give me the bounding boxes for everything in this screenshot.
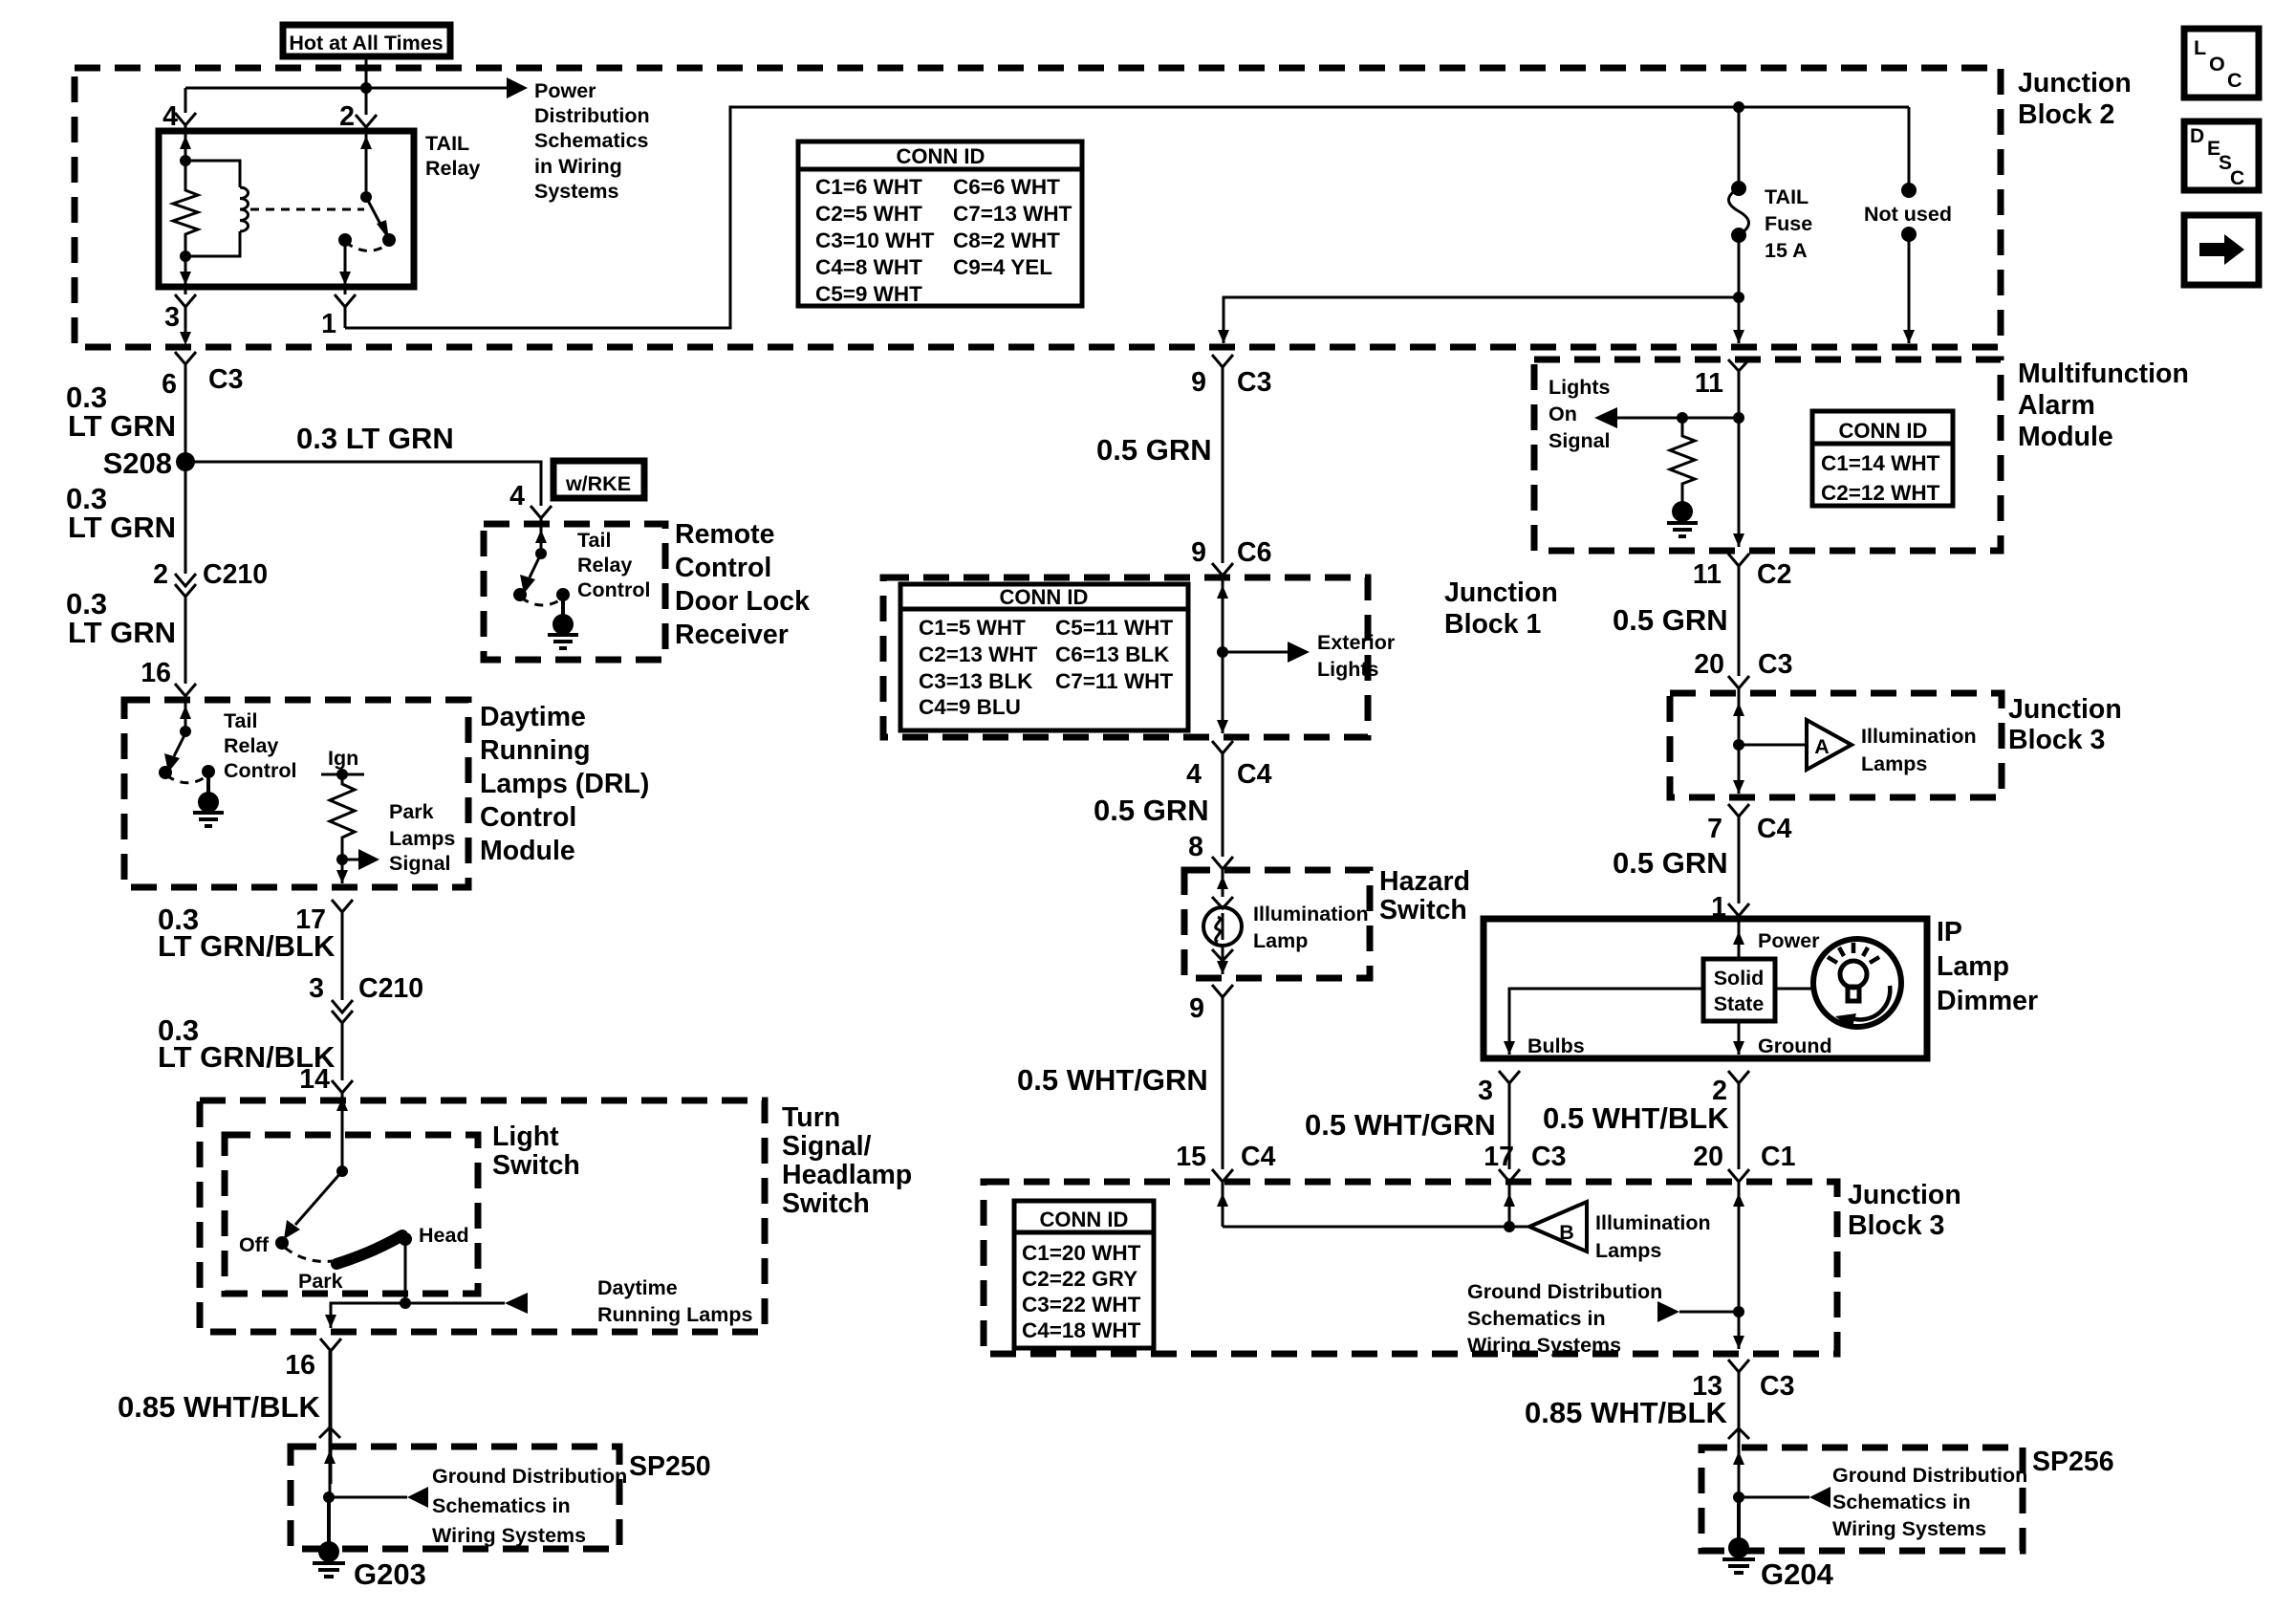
svg-text:Alarm: Alarm: [2018, 390, 2095, 421]
svg-text:C5=11 WHT: C5=11 WHT: [1055, 616, 1173, 640]
svg-text:0.5 GRN: 0.5 GRN: [1613, 846, 1728, 880]
svg-text:Module: Module: [2018, 422, 2113, 452]
wire S208 branch to RKE: [185, 462, 541, 506]
svg-text:0.5 GRN: 0.5 GRN: [1613, 603, 1728, 637]
connector 15 C4 into JB3: [1212, 1169, 1233, 1182]
inline connector 20 C3: [1728, 676, 1749, 688]
Junction Block 3 (lower) dashed box: [984, 1182, 1837, 1354]
wire not used lower: [1908, 234, 1911, 343]
svg-text:Daytime: Daytime: [597, 1276, 678, 1299]
node fuse output junction: [1733, 292, 1744, 303]
svg-text:C6=13 BLK: C6=13 BLK: [1055, 642, 1170, 666]
svg-text:Multifunction: Multifunction: [2018, 359, 2189, 389]
wire relay pin 4 drop: [184, 88, 187, 113]
svg-text:Signal: Signal: [389, 852, 451, 875]
svg-text:Relay: Relay: [577, 554, 632, 577]
wire pin1 riser to fuse feed: [345, 107, 1909, 328]
svg-text:CONN ID: CONN ID: [1839, 419, 1928, 443]
svg-text:15: 15: [1176, 1142, 1206, 1172]
svg-text:L: L: [2194, 36, 2206, 59]
svg-text:CONN ID: CONN ID: [1040, 1208, 1129, 1231]
svg-text:4: 4: [509, 481, 525, 512]
svg-text:C4: C4: [1237, 759, 1272, 790]
svg-text:Switch: Switch: [1379, 895, 1467, 925]
svg-text:2: 2: [153, 559, 168, 590]
svg-text:Ground Distribution: Ground Distribution: [432, 1465, 627, 1488]
pin 4 connector: [175, 113, 196, 125]
svg-text:3: 3: [164, 302, 180, 333]
svg-text:Lights: Lights: [1317, 658, 1379, 681]
connector 7 C4 below JB3 upper: [1728, 804, 1749, 816]
svg-text:LT GRN: LT GRN: [68, 511, 176, 544]
pin 3 connector: [175, 287, 196, 336]
svg-text:9: 9: [1191, 537, 1206, 568]
svg-text:Light: Light: [492, 1121, 559, 1152]
svg-text:CONN ID: CONN ID: [897, 144, 986, 168]
pin 1 connector: [335, 287, 356, 328]
node not used terminal lower: [1901, 227, 1917, 242]
svg-text:C: C: [2230, 167, 2244, 189]
node coil bottom: [180, 250, 191, 262]
svg-text:C8=2 WHT: C8=2 WHT: [953, 229, 1060, 252]
svg-text:Daytime: Daytime: [480, 702, 586, 732]
svg-text:4: 4: [1186, 759, 1202, 790]
svg-text:0.3 LT GRN: 0.3 LT GRN: [296, 422, 454, 455]
svg-text:Block 2: Block 2: [2018, 99, 2114, 130]
svg-text:Headlamp: Headlamp: [782, 1160, 912, 1190]
illumination lamp (hazard switch): [1203, 907, 1242, 946]
svg-text:G203: G203: [354, 1557, 426, 1591]
wire power distribution branch: [185, 87, 507, 90]
off-page triangle B Illumination Lamps: [1529, 1202, 1587, 1252]
svg-text:Bulbs: Bulbs: [1527, 1034, 1585, 1057]
pin 16 connector (turn signal switch): [320, 1339, 341, 1351]
svg-text:TAIL: TAIL: [425, 132, 469, 155]
svg-text:Ground: Ground: [1758, 1034, 1832, 1057]
svg-text:D: D: [2190, 125, 2204, 147]
svg-text:14: 14: [299, 1064, 330, 1095]
dashed arc Off to Park: [285, 1248, 333, 1261]
ground G204: [1737, 1497, 1741, 1539]
TAIL fuse 15A: [1731, 181, 1746, 196]
svg-text:C1=14 WHT: C1=14 WHT: [1821, 451, 1940, 475]
node power junction: [360, 82, 372, 94]
svg-text:Control: Control: [675, 553, 771, 583]
RKE pin 4 connector: [531, 506, 552, 518]
wire to ground distribution (SP250): [329, 1496, 407, 1499]
Park-Head wiper thick arc: [336, 1235, 402, 1264]
Daytime Running Lamps (DRL) Control Module dashed box: [124, 700, 468, 887]
inline connector 1 into IP dimmer: [1728, 903, 1749, 916]
wire solid state to knob: [1775, 988, 1813, 991]
svg-text:Hot at All Times: Hot at All Times: [289, 32, 443, 54]
svg-text:C5=9 WHT: C5=9 WHT: [815, 282, 922, 306]
svg-text:Switch: Switch: [782, 1188, 870, 1219]
node Head contact: [399, 1232, 412, 1246]
DRL tail relay control switch: [184, 708, 187, 729]
arrow to Power Distribution: [507, 77, 528, 98]
resistor park lamps (DRL): [330, 774, 355, 860]
svg-text:Control: Control: [577, 578, 650, 601]
svg-text:0.85 WHT/BLK: 0.85 WHT/BLK: [118, 1390, 320, 1424]
IP Lamp Dimmer box: [1484, 919, 1927, 1058]
svg-text:Tail: Tail: [577, 529, 611, 552]
wire Head output: [404, 1239, 407, 1303]
CONN ID table (Junction Block 1): [900, 584, 1188, 730]
svg-text:Ign: Ign: [328, 747, 358, 770]
svg-text:9: 9: [1191, 367, 1206, 398]
svg-text:Wiring Systems: Wiring Systems: [432, 1524, 586, 1547]
svg-text:Tail: Tail: [224, 709, 257, 732]
svg-text:C1: C1: [1761, 1142, 1796, 1172]
connector C210 pin 3: [332, 1000, 353, 1023]
Junction Block 2 dashed box: [75, 68, 2001, 347]
wire ground output: [1738, 1021, 1741, 1055]
wire 0.3 LT GRN to S208: [184, 364, 187, 574]
svg-text:17: 17: [1484, 1142, 1514, 1172]
svg-text:C4=9 BLU: C4=9 BLU: [919, 695, 1021, 719]
svg-text:O: O: [2209, 53, 2225, 76]
ground (alarm module): [1672, 501, 1693, 522]
svg-text:Park: Park: [298, 1270, 343, 1293]
svg-text:20: 20: [1694, 649, 1724, 680]
svg-text:Lamps: Lamps: [1861, 752, 1927, 775]
svg-text:Junction: Junction: [2018, 68, 2132, 98]
svg-text:in Wiring: in Wiring: [534, 155, 622, 178]
svg-text:C1=5 WHT: C1=5 WHT: [919, 616, 1026, 640]
node ground distribution junction: [1733, 1306, 1744, 1317]
wire not used upper: [1908, 107, 1911, 187]
node A feed junction: [1733, 739, 1744, 751]
svg-text:C3=13 BLK: C3=13 BLK: [919, 669, 1033, 693]
wire Hot at All Times feed: [365, 56, 368, 88]
Solid State box: [1703, 959, 1775, 1021]
svg-text:C2=12 WHT: C2=12 WHT: [1821, 481, 1940, 505]
node relay moving contact: [382, 233, 396, 247]
pin 14 connector: [332, 1080, 353, 1093]
SP256 dashed box: [1701, 1448, 2023, 1551]
DESC legend box: [2184, 121, 2259, 190]
svg-text:Solid: Solid: [1714, 967, 1765, 990]
svg-text:0.5 GRN: 0.5 GRN: [1094, 794, 1209, 827]
svg-text:Head: Head: [419, 1224, 469, 1247]
wire lamp lower lead: [1222, 946, 1224, 974]
connector 2 below IP dimmer: [1728, 1071, 1749, 1083]
svg-text:Block 3: Block 3: [1848, 1210, 1944, 1241]
svg-text:Junction: Junction: [1444, 577, 1558, 608]
arrow Park Lamps Signal: [342, 859, 358, 861]
svg-text:A: A: [1814, 735, 1830, 758]
svg-text:SP250: SP250: [629, 1451, 711, 1482]
connector 20 C1 into JB3 lower: [1728, 1169, 1749, 1182]
svg-text:LT GRN: LT GRN: [68, 616, 176, 649]
CONN ID table (Multifunction Alarm Module): [1812, 411, 1953, 506]
svg-text:Lamp: Lamp: [1253, 929, 1308, 952]
svg-text:C4=8 WHT: C4=8 WHT: [815, 255, 922, 279]
svg-text:Systems: Systems: [534, 180, 618, 203]
wire fuse lower lead: [1738, 235, 1741, 343]
svg-text:6: 6: [162, 369, 177, 400]
svg-text:Receiver: Receiver: [675, 620, 789, 650]
dashed contact arc: [345, 242, 387, 250]
svg-text:C2: C2: [1757, 559, 1791, 590]
svg-text:16: 16: [285, 1350, 315, 1381]
node park lamps signal: [336, 854, 348, 865]
CONN ID table (Junction Block 3 lower): [1014, 1201, 1154, 1348]
svg-text:0.5 WHT/GRN: 0.5 WHT/GRN: [1305, 1108, 1496, 1142]
svg-text:LT GRN: LT GRN: [68, 409, 176, 443]
pin 6 C3 connector below JB2: [175, 352, 196, 364]
wire to ground distribution (SP256): [1739, 1496, 1809, 1499]
ground (DRL): [206, 772, 210, 794]
svg-text:IP: IP: [1937, 917, 1962, 947]
SP250 dashed box: [291, 1447, 619, 1549]
node relay fixed contact: [338, 233, 352, 247]
svg-text:C3=10 WHT: C3=10 WHT: [815, 229, 935, 252]
svg-text:Control: Control: [480, 802, 576, 833]
Ign terminal tick: [321, 773, 364, 776]
svg-text:0.85 WHT/BLK: 0.85 WHT/BLK: [1525, 1396, 1727, 1429]
arrow Exterior Lights: [1223, 651, 1288, 654]
svg-text:20: 20: [1693, 1142, 1723, 1172]
connector 13 C3 below JB3 lower: [1728, 1360, 1749, 1372]
svg-text:Relay: Relay: [224, 734, 278, 757]
Multifunction Alarm Module pin 11 connector: [1728, 359, 1749, 371]
svg-text:Schematics: Schematics: [534, 129, 649, 152]
svg-text:Remote: Remote: [675, 519, 775, 550]
svg-text:Relay: Relay: [425, 157, 480, 180]
wire relay coil branch left: [184, 131, 187, 161]
dimmer knob: [1813, 939, 1901, 1030]
connector C210 pin 2: [175, 574, 196, 597]
svg-text:Dimmer: Dimmer: [1937, 986, 2038, 1016]
svg-text:C3: C3: [1758, 649, 1792, 680]
connector 4 C4 below JB1: [1212, 741, 1233, 753]
svg-text:Door Lock: Door Lock: [675, 586, 810, 617]
relay switch arm: [366, 197, 384, 231]
light switch arm to Off: [295, 1171, 342, 1225]
svg-text:C3: C3: [1237, 367, 1271, 398]
wire fuse upper lead: [1738, 107, 1741, 188]
dashed relay actuator link: [250, 208, 364, 211]
svg-text:CONN ID: CONN ID: [1000, 585, 1089, 609]
wire bulbs output: [1509, 989, 1703, 1055]
svg-text:C7=11 WHT: C7=11 WHT: [1055, 669, 1173, 693]
wire coil to pin 3: [184, 256, 187, 285]
svg-text:Ground Distribution: Ground Distribution: [1832, 1464, 2027, 1487]
Remote Control Door Lock Receiver dashed box: [484, 524, 665, 660]
svg-text:0.5 WHT/BLK: 0.5 WHT/BLK: [1543, 1101, 1729, 1135]
connector 3 below IP dimmer: [1499, 1071, 1520, 1083]
svg-text:C2=13 WHT: C2=13 WHT: [919, 642, 1038, 666]
svg-text:Off: Off: [239, 1233, 270, 1256]
wire to illumination lamps B: [1223, 1226, 1529, 1229]
svg-text:Signal/: Signal/: [782, 1131, 872, 1162]
svg-text:C3: C3: [1760, 1371, 1794, 1402]
svg-text:C: C: [2227, 69, 2242, 92]
wire to illumination lamps A: [1739, 744, 1807, 747]
arrow from Ground Distribution text: [1679, 1311, 1739, 1314]
svg-text:C4: C4: [1757, 814, 1792, 844]
svg-text:Block 1: Block 1: [1444, 609, 1542, 640]
svg-text:0.5 WHT/GRN: 0.5 WHT/GRN: [1017, 1063, 1208, 1097]
connector 11 C2 below MAM: [1728, 554, 1749, 566]
Light Switch inner dashed box: [225, 1135, 478, 1294]
wire relay pin 2 drop: [365, 88, 368, 115]
svg-text:Junction: Junction: [2008, 694, 2122, 725]
wire JB3 upper exit: [1738, 745, 1741, 794]
svg-text:2: 2: [339, 101, 355, 132]
svg-text:Power: Power: [534, 79, 596, 102]
connector 9 below hazard: [1212, 985, 1233, 997]
svg-text:SP256: SP256: [2032, 1447, 2114, 1477]
wire Lights On Signal: [1617, 417, 1739, 420]
connector 9 C3 below JB2: [1212, 355, 1233, 367]
node fuse feed junction: [1733, 101, 1744, 113]
svg-text:Signal: Signal: [1549, 429, 1611, 452]
svg-text:Control: Control: [224, 759, 296, 782]
wire light switch output: [331, 1303, 405, 1328]
off-page triangle A Illumination Lamps: [1807, 720, 1852, 770]
svg-text:Exterior: Exterior: [1317, 631, 1396, 654]
svg-text:w/RKE: w/RKE: [565, 472, 631, 495]
svg-text:16: 16: [141, 658, 171, 688]
node relay switch pivot: [360, 191, 372, 203]
node S208: [176, 452, 195, 471]
node B feed junction: [1504, 1221, 1515, 1232]
svg-text:Schematics in: Schematics in: [432, 1494, 571, 1517]
svg-text:C3: C3: [1531, 1142, 1566, 1172]
svg-text:G204: G204: [1761, 1557, 1834, 1591]
svg-text:C6=6 WHT: C6=6 WHT: [953, 175, 1060, 199]
svg-text:Not used: Not used: [1864, 203, 1952, 226]
ground G203: [327, 1497, 331, 1543]
svg-text:LT GRN/BLK: LT GRN/BLK: [158, 929, 336, 963]
connector 9 C6 into JB1: [1212, 563, 1233, 576]
relay coil: [185, 161, 240, 187]
svg-text:C6: C6: [1237, 537, 1271, 568]
wire inside SP250: [329, 1447, 332, 1497]
svg-text:8: 8: [1188, 832, 1203, 862]
svg-text:TAIL: TAIL: [1765, 185, 1809, 208]
svg-text:Lamp: Lamp: [1937, 951, 2009, 982]
node exterior lights junction: [1217, 646, 1228, 658]
svg-text:S208: S208: [103, 446, 172, 480]
svg-text:15 A: 15 A: [1765, 239, 1808, 262]
Hazard Switch dashed box: [1184, 870, 1370, 978]
svg-text:On: On: [1549, 403, 1577, 425]
svg-text:C7=13 WHT: C7=13 WHT: [953, 202, 1072, 226]
svg-text:Junction: Junction: [1848, 1180, 1961, 1210]
node not used terminal upper: [1901, 183, 1917, 198]
svg-text:Schematics in: Schematics in: [1467, 1307, 1606, 1330]
svg-text:Lights: Lights: [1549, 376, 1611, 399]
svg-text:Wiring Systems: Wiring Systems: [1467, 1334, 1621, 1357]
svg-text:C1=6 WHT: C1=6 WHT: [815, 175, 922, 199]
svg-text:0.5 GRN: 0.5 GRN: [1096, 433, 1212, 467]
wire relay pin 1 inside: [344, 240, 347, 285]
wire to Daytime Running Lamps: [405, 1302, 505, 1305]
svg-text:Turn: Turn: [782, 1102, 840, 1133]
pin 16 connector into DRL: [175, 684, 196, 696]
svg-text:Fuse: Fuse: [1765, 212, 1812, 235]
inline connector 8 into hazard: [1212, 857, 1233, 869]
wire to SP250: [329, 1351, 332, 1447]
svg-text:Block 3: Block 3: [2008, 725, 2105, 755]
node Off contact: [275, 1236, 289, 1250]
connector 17 C3 into JB3 lower: [1499, 1169, 1520, 1182]
svg-text:Wiring Systems: Wiring Systems: [1832, 1517, 1986, 1540]
w/RKE label box: [553, 461, 644, 498]
Hot at All Times label box: [283, 25, 450, 56]
Junction Block 3 (upper) dashed box: [1670, 693, 2002, 797]
svg-text:Distribution: Distribution: [534, 104, 650, 127]
svg-text:Lamps: Lamps: [389, 827, 455, 850]
svg-text:C4: C4: [1241, 1142, 1276, 1172]
LOC legend box: [2184, 29, 2259, 98]
wire DRL pin 17: [341, 860, 344, 883]
resistor (relay): [173, 161, 198, 256]
light switch pivot: [336, 1165, 348, 1177]
svg-text:C3=22 WHT: C3=22 WHT: [1022, 1293, 1141, 1317]
node head output junction: [400, 1297, 411, 1309]
Turn Signal / Headlamp Switch outer dashed box: [200, 1100, 765, 1332]
svg-text:C1=20 WHT: C1=20 WHT: [1022, 1241, 1141, 1265]
svg-text:Running Lamps: Running Lamps: [597, 1303, 752, 1326]
svg-text:Illumination: Illumination: [1595, 1211, 1711, 1234]
svg-text:C2=22 GRY: C2=22 GRY: [1022, 1267, 1137, 1291]
svg-text:Schematics in: Schematics in: [1832, 1491, 1971, 1513]
svg-text:Ground Distribution: Ground Distribution: [1467, 1280, 1662, 1303]
tail relay control switch (RKE): [535, 548, 547, 559]
svg-text:State: State: [1714, 992, 1765, 1015]
node coil top: [180, 155, 191, 166]
svg-text:Lamps (DRL): Lamps (DRL): [480, 769, 649, 799]
svg-text:Hazard: Hazard: [1379, 866, 1470, 897]
svg-text:Illumination: Illumination: [1861, 725, 1977, 748]
svg-text:Module: Module: [480, 836, 575, 866]
svg-text:11: 11: [1693, 559, 1722, 590]
svg-text:Power: Power: [1758, 929, 1820, 952]
node lights on signal junction: [1733, 412, 1744, 424]
svg-text:7: 7: [1707, 814, 1722, 844]
node resistor tap: [1677, 412, 1688, 424]
svg-text:C4=18 WHT: C4=18 WHT: [1022, 1318, 1141, 1342]
inline connector to SP256: [1728, 1428, 1749, 1439]
inline connector to SP250: [319, 1427, 340, 1438]
svg-text:C210: C210: [358, 973, 423, 1004]
wire inside SP256: [1738, 1448, 1741, 1497]
TAIL Relay box: [159, 131, 414, 287]
svg-text:Park: Park: [389, 800, 434, 823]
svg-text:9: 9: [1189, 993, 1204, 1024]
CONN ID table (Junction Block 2): [798, 142, 1082, 306]
svg-text:3: 3: [309, 973, 324, 1004]
pin 2 connector: [356, 115, 377, 127]
ground (RKE): [561, 595, 565, 616]
resistor (alarm module): [1670, 418, 1695, 502]
svg-text:B: B: [1559, 1221, 1574, 1244]
svg-text:Running: Running: [480, 735, 591, 766]
svg-text:4: 4: [162, 101, 178, 132]
svg-text:3: 3: [1478, 1076, 1493, 1106]
Junction Block 1 dashed box: [883, 577, 1368, 737]
node SP250 junction: [323, 1491, 335, 1503]
svg-text:C9=4 YEL: C9=4 YEL: [953, 255, 1052, 279]
svg-text:Illumination: Illumination: [1253, 903, 1369, 925]
svg-text:Switch: Switch: [492, 1150, 580, 1181]
wire relay switch common: [365, 131, 368, 197]
